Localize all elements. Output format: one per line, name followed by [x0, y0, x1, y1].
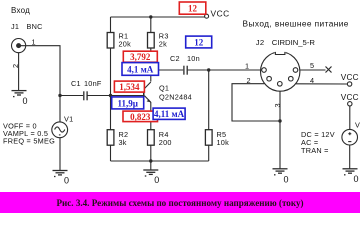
- svg-text:0: 0: [23, 96, 28, 106]
- capacitor C2: [184, 66, 187, 75]
- wire base node to R2: [110, 96, 112, 130]
- connector J2 CIRDIN_5-R: [261, 50, 300, 91]
- wire C2 to output node: [188, 69, 209, 71]
- svg-text:4,1 мА: 4,1 мА: [127, 64, 154, 74]
- capacitor C1: [84, 91, 87, 100]
- wire rail to ground: [150, 161, 152, 170]
- svg-text:200: 200: [159, 138, 172, 147]
- svg-text:1,534: 1,534: [119, 82, 140, 92]
- resistor R4: [148, 130, 155, 146]
- J2 pin1 cup: [262, 68, 267, 73]
- wire node to V1: [59, 96, 61, 122]
- wire J1 pin2 to ground: [18, 53, 20, 91]
- svg-text:CIRDIN_5-R: CIRDIN_5-R: [272, 38, 316, 47]
- bias voltage box 12 (blue): [186, 36, 212, 48]
- svg-text:1: 1: [245, 62, 249, 71]
- svg-text:0: 0: [284, 175, 289, 185]
- bias current box 4,11 мА (emitter): [153, 108, 185, 119]
- wire R2 to bottom rail: [110, 145, 112, 161]
- ground (under V1): [53, 171, 68, 177]
- svg-text:BNC: BNC: [27, 22, 43, 31]
- wire R1 to base node: [110, 48, 112, 96]
- svg-text:Выход, внешнее питание: Выход, внешнее питание: [243, 19, 349, 29]
- svg-text:TRAN =: TRAN =: [301, 146, 329, 155]
- svg-text:12: 12: [194, 37, 204, 47]
- wire J2 pin3 to ground: [279, 91, 281, 168]
- wire collector node to C2: [151, 69, 183, 71]
- junction node (base): [109, 94, 112, 97]
- wire R4 to bottom rail: [150, 145, 152, 161]
- svg-text:4,11 мА: 4,11 мА: [154, 109, 185, 119]
- svg-text:FREQ = 5MEG: FREQ = 5MEG: [3, 137, 55, 146]
- svg-text:0,823: 0,823: [130, 112, 151, 122]
- svg-text:C1: C1: [71, 79, 81, 88]
- VCC terminal (pin4): [347, 82, 351, 86]
- source V1: [52, 122, 68, 138]
- VCC terminal (top rail): [205, 14, 209, 18]
- bias voltage box 12 (VCC): [179, 2, 206, 14]
- ground (under J2): [273, 169, 288, 175]
- no-connect X: [326, 67, 332, 73]
- junction node (collector/C2): [149, 68, 152, 71]
- wire C1 to base node: [88, 95, 144, 97]
- wire J2 pin2 loop: [232, 84, 280, 121]
- svg-text:11,9µ: 11,9µ: [117, 98, 138, 108]
- J2 pin3 cup: [278, 82, 283, 87]
- wire R3 to collector: [150, 48, 152, 82]
- ground (under V2): [343, 169, 358, 175]
- wire VCC to V2: [349, 106, 351, 130]
- wire input node to C1: [60, 95, 83, 97]
- junction node (input/C1): [58, 94, 61, 97]
- svg-text:Q2N2484: Q2N2484: [159, 93, 192, 102]
- svg-text:VCC: VCC: [211, 8, 230, 18]
- bias current box 11,9µ (base): [112, 97, 144, 109]
- VCC power rail: [111, 16, 205, 18]
- connector J1 BNC: [12, 39, 26, 53]
- wire emitter to R4: [150, 102, 152, 130]
- junction node (rail/R3): [149, 15, 152, 18]
- svg-text:10k: 10k: [217, 138, 230, 147]
- resistor R1: [107, 33, 114, 49]
- junction node (output/R5): [207, 68, 210, 71]
- svg-text:Q1: Q1: [159, 84, 169, 93]
- junction node (bottom/ground): [149, 159, 152, 162]
- svg-text:4: 4: [310, 76, 314, 85]
- svg-text:3k: 3k: [119, 138, 127, 147]
- wire J2 pin5 no-connect: [300, 69, 326, 71]
- transistor Q1: [143, 82, 151, 102]
- svg-text:10nF: 10nF: [84, 79, 102, 88]
- J2 pin2 cup: [267, 76, 272, 81]
- wire V2 to ground: [349, 145, 351, 169]
- svg-text:V1: V1: [64, 115, 73, 124]
- svg-text:V2: V2: [355, 121, 360, 130]
- svg-text:3,792: 3,792: [130, 52, 151, 62]
- svg-text:0: 0: [64, 175, 69, 185]
- svg-text:3: 3: [273, 103, 282, 107]
- svg-text:2: 2: [247, 76, 251, 85]
- svg-text:0: 0: [154, 175, 159, 185]
- bias voltage box 0,823 (emitter): [123, 111, 158, 122]
- junction node (pin3/pin2): [278, 119, 281, 122]
- svg-text:Вход: Вход: [11, 6, 30, 15]
- svg-text:J2: J2: [256, 38, 265, 47]
- svg-text:1: 1: [32, 38, 36, 47]
- wire rail to R1: [110, 17, 112, 33]
- svg-text:VCC: VCC: [341, 93, 359, 102]
- svg-text:20k: 20k: [119, 40, 132, 49]
- resistor R2: [107, 130, 114, 146]
- svg-text:VCC: VCC: [341, 73, 359, 82]
- resistor R3: [148, 33, 155, 49]
- wire rail to R3: [150, 17, 152, 33]
- svg-text:C2: C2: [170, 54, 180, 63]
- J2 pin4 cup: [289, 76, 294, 81]
- VCC terminal (V2): [348, 102, 352, 106]
- bottom rail wire: [111, 160, 209, 162]
- wire J1 pin1 to node: [20, 46, 60, 96]
- caption banner: [0, 192, 360, 213]
- wire J2 pin4 to VCC: [296, 83, 348, 85]
- wire V1 to ground: [59, 138, 61, 171]
- svg-text:12: 12: [188, 3, 198, 13]
- svg-text:5: 5: [310, 61, 314, 70]
- J2 pin5 cup: [293, 68, 298, 73]
- svg-text:2k: 2k: [159, 40, 167, 49]
- svg-text:2: 2: [11, 64, 20, 68]
- svg-text:10n: 10n: [187, 54, 200, 63]
- bias voltage box 1,534 (base): [114, 81, 144, 92]
- bias current box 4,1 мА (R3): [122, 63, 159, 76]
- wire output node to R5: [208, 70, 210, 130]
- svg-text:0: 0: [354, 174, 359, 184]
- source V2: [342, 129, 358, 145]
- resistor R5: [205, 130, 212, 146]
- ground (under J1): [12, 91, 27, 97]
- wire R5 to bottom rail: [208, 145, 210, 161]
- bias voltage box 3,792 (collector): [123, 51, 157, 62]
- wire output node to J2 pin1: [209, 69, 262, 71]
- ground (center 0): [143, 170, 158, 176]
- svg-text:J1: J1: [11, 22, 19, 31]
